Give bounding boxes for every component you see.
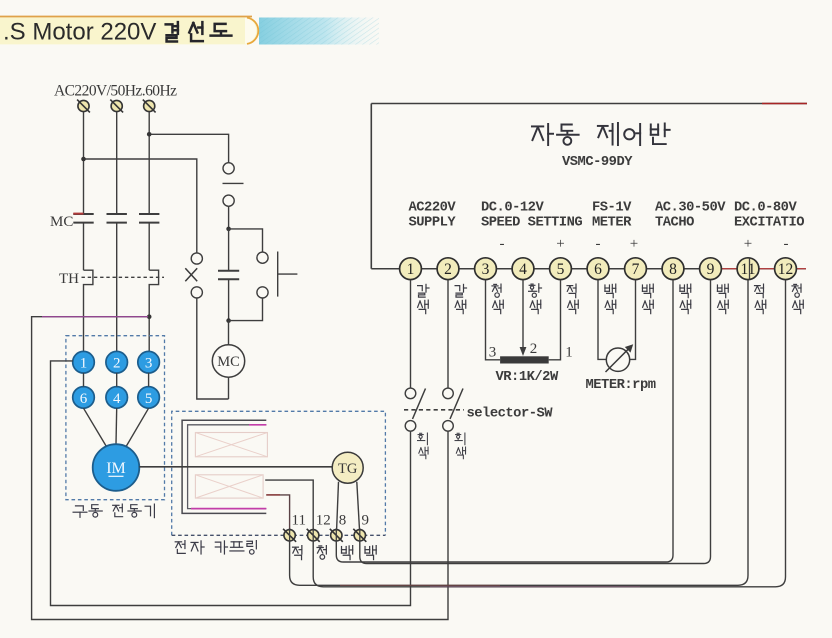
- terminal 12 (output): [308, 530, 319, 541]
- panel top edge red tint: [762, 103, 807, 105]
- wire coupling to terminal 11: [266, 495, 289, 530]
- panel terminal 2: [437, 258, 459, 280]
- label 전자 카프링: [175, 541, 185, 554]
- panel terminal 5: [550, 258, 572, 280]
- maroon tint coupling wire: [266, 494, 280, 496]
- label 백색 under terminal 6: [605, 284, 616, 298]
- node phase3 bottom tap: [147, 314, 152, 319]
- svg-text:METER:rpm: METER:rpm: [586, 378, 656, 393]
- node phase3 tap: [147, 132, 152, 137]
- panel terminal 3: [475, 258, 497, 280]
- wire panel T9 to output 9: [360, 280, 711, 564]
- svg-text:3: 3: [482, 261, 490, 278]
- contactor MC aux contact: [218, 270, 239, 272]
- terminal L2: [111, 100, 122, 111]
- wire coupling to terminal 12: [265, 480, 313, 529]
- svg-text:-: -: [784, 236, 789, 252]
- svg-text:AC220V/50Hz.60Hz: AC220V/50Hz.60Hz: [54, 83, 177, 100]
- wire through terminal 8: [335, 528, 337, 542]
- panel terminal 4: [512, 258, 534, 280]
- label 적색 under terminal 5: [567, 284, 576, 298]
- label 백 (white) t8: [342, 546, 353, 560]
- motor terminal 6: [73, 387, 95, 409]
- wire motor 5 to IM: [126, 408, 149, 447]
- wire panel T11 to output 11: [290, 280, 748, 586]
- panel left edge: [370, 104, 372, 269]
- wire phase3 top: [148, 112, 150, 135]
- svg-text:-: -: [596, 236, 601, 252]
- contactor MC main contact 3: [139, 213, 159, 215]
- wire panel T8 to output 8: [336, 280, 673, 562]
- wire phase3 to motor: [148, 317, 150, 352]
- wire selector pole2 to phase3: [32, 317, 448, 620]
- svg-text:4: 4: [113, 391, 121, 407]
- title band yellow background: [0, 17, 259, 44]
- svg-text:12: 12: [778, 261, 794, 278]
- wire stop to junction: [228, 206, 230, 229]
- thermal overload TH phase3: [149, 270, 158, 317]
- coupling core magenta top: [249, 424, 266, 426]
- motor terminal 1: [73, 351, 95, 373]
- label 갈색 under terminal 1: [418, 284, 429, 297]
- coupling core outer: [182, 420, 266, 513]
- wire phase1 top: [83, 112, 85, 214]
- selector switch pole 1: [405, 388, 416, 399]
- svg-text:1: 1: [407, 261, 415, 278]
- svg-text:8: 8: [339, 513, 347, 529]
- wire through terminal 12: [312, 528, 314, 542]
- svg-text:3: 3: [145, 356, 153, 372]
- wire motor 6 to IM: [84, 408, 108, 447]
- wire panel T12 to output 12: [313, 280, 785, 587]
- svg-text:9: 9: [362, 513, 370, 529]
- svg-text:.S Motor 220V: .S Motor 220V: [3, 19, 156, 46]
- motor terminal 2: [106, 351, 128, 373]
- svg-text:SUPPLY: SUPPLY: [409, 216, 457, 231]
- wire TG to terminal 9: [357, 482, 360, 530]
- motor IM: [93, 444, 140, 491]
- motor terminal 5: [138, 387, 160, 409]
- wire aux to lower junction: [228, 279, 230, 320]
- label 황색 under terminal 4: [529, 284, 542, 298]
- svg-text:8: 8: [669, 261, 677, 278]
- svg-text:5: 5: [145, 391, 153, 407]
- magenta tint on phase3 link: [42, 316, 148, 318]
- wire between MC contact and TH: [83, 223, 85, 271]
- wire T7 to meter: [630, 280, 636, 360]
- svg-text:AC220V: AC220V: [409, 201, 457, 216]
- motor terminal 4: [106, 387, 128, 409]
- wire through terminal 11: [749, 258, 751, 279]
- svg-text:AC.30-50V: AC.30-50V: [655, 201, 726, 216]
- motor terminal 3: [138, 351, 160, 373]
- svg-text:SPEED SETTING: SPEED SETTING: [481, 216, 582, 231]
- panel terminal 9: [700, 258, 722, 280]
- wire between MC contact and TH: [116, 223, 118, 352]
- wire through terminal 11: [289, 528, 291, 542]
- wire control tap phase3: [149, 134, 228, 162]
- label 갈색 under terminal 2: [455, 284, 466, 297]
- svg-text:1: 1: [565, 345, 573, 361]
- svg-text:11: 11: [741, 261, 756, 278]
- svg-text:2: 2: [530, 341, 538, 357]
- label 백색 under terminal 7: [642, 284, 653, 298]
- svg-text:1: 1: [80, 356, 88, 372]
- start pushbutton NO contact: [257, 252, 268, 263]
- title band cyan swoosh: [259, 18, 379, 45]
- label 청 (blue): [317, 546, 326, 560]
- wire T6 to meter: [598, 280, 606, 360]
- terminal 9 (output): [354, 530, 365, 541]
- svg-text:DC.0-80V: DC.0-80V: [734, 201, 797, 216]
- svg-text:MC: MC: [217, 354, 240, 370]
- wire T5 to VR: [549, 280, 561, 360]
- panel terminal 11: [737, 258, 759, 280]
- TH trip contact: [191, 253, 202, 264]
- svg-text:IM: IM: [106, 460, 126, 477]
- label 회색 pole1: [418, 433, 428, 445]
- label 백 (white) t9: [365, 546, 376, 560]
- node phase1 tap: [81, 157, 86, 162]
- wire motor terminal link: [116, 373, 118, 387]
- label 청색 under terminal 3: [492, 284, 501, 297]
- label 구동 전동기: [73, 506, 87, 517]
- wire TG to terminal 8: [337, 482, 339, 530]
- wire start bottom to lower junction: [229, 298, 263, 321]
- svg-text:TH: TH: [59, 271, 79, 287]
- svg-text:MC: MC: [50, 214, 73, 230]
- wire T1 to selector: [410, 280, 412, 389]
- svg-text:EXCITATIO: EXCITATIO: [734, 216, 804, 231]
- svg-text:+: +: [556, 236, 564, 252]
- node control junction lower: [226, 318, 231, 323]
- selector mechanical link (dashed): [404, 409, 464, 411]
- label 청색 under terminal 12: [792, 284, 801, 297]
- label 백색 under terminal 8: [680, 284, 691, 298]
- wire junction to aux contact: [228, 229, 230, 271]
- panel terminal 12: [775, 258, 797, 280]
- svg-text:12: 12: [316, 513, 331, 529]
- tacho generator TG: [332, 452, 363, 483]
- coupling winding lower: [195, 475, 263, 498]
- terminal L3: [144, 100, 155, 111]
- svg-text:4: 4: [519, 261, 527, 278]
- svg-text:TG: TG: [338, 461, 358, 477]
- panel terminal rail: [371, 268, 806, 270]
- panel terminal 7: [625, 258, 647, 280]
- label 백색 under terminal 9: [717, 284, 728, 298]
- wire T2 to selector: [447, 280, 449, 389]
- wire motor terminal link: [148, 373, 150, 387]
- wire MC coil bottom: [228, 377, 230, 399]
- wire T3 to VR: [486, 280, 501, 360]
- svg-text:9: 9: [707, 261, 715, 278]
- terminal 11 (output): [284, 530, 295, 541]
- svg-text:+: +: [630, 236, 638, 252]
- wire motor terminal link: [83, 373, 85, 387]
- panel rail red tint: [722, 268, 806, 270]
- label 적 (red): [293, 546, 302, 560]
- panel terminal 1: [400, 258, 422, 280]
- terminal L1: [78, 100, 89, 111]
- svg-text:6: 6: [80, 391, 88, 407]
- svg-text:2: 2: [444, 261, 452, 278]
- svg-text:VR:1K/2W: VR:1K/2W: [496, 369, 559, 385]
- svg-text:DC.0-12V: DC.0-12V: [481, 201, 544, 216]
- svg-text:VSMC-99DY: VSMC-99DY: [562, 155, 633, 170]
- node control junction upper: [226, 227, 231, 232]
- label 회색 pole2: [455, 433, 465, 445]
- wire control tap phase1: [84, 159, 197, 253]
- stop pushbutton NC contact: [223, 163, 234, 174]
- wire selector pole1 to motor terminal 1: [51, 361, 411, 606]
- contactor MC main contact 2: [107, 213, 127, 215]
- wire through terminal 9: [359, 528, 361, 542]
- svg-text:3: 3: [489, 345, 497, 361]
- wire phase2 top: [116, 112, 118, 214]
- wire T4 wiper: [522, 280, 524, 348]
- red scan tint on contact 1: [73, 213, 83, 215]
- wire branch to start button: [229, 229, 263, 252]
- svg-text:METER: METER: [592, 216, 632, 231]
- terminal 8 (output): [331, 530, 342, 541]
- svg-text:7: 7: [632, 261, 640, 278]
- selector switch pole 2: [443, 388, 454, 399]
- svg-text:-: -: [500, 236, 505, 252]
- label 적색 under terminal 11: [755, 284, 764, 298]
- svg-text:TACHO: TACHO: [655, 216, 694, 231]
- coupling core inner: [188, 425, 267, 509]
- svg-text:+: +: [744, 236, 752, 252]
- magenta tint pair2 line: [430, 586, 640, 588]
- svg-text:selector-SW: selector-SW: [467, 406, 554, 422]
- coil MC: [212, 345, 244, 377]
- title text 결선도: [166, 22, 178, 41]
- svg-text:11: 11: [292, 513, 306, 529]
- wire trip contact to MC coil bottom: [197, 298, 229, 399]
- wire motor 4 to IM: [115, 408, 118, 444]
- svg-text:5: 5: [557, 261, 565, 278]
- coupling box (dashed): [172, 411, 386, 535]
- label 자동 제어반: [532, 124, 553, 145]
- thermal overload TH phase1: [84, 270, 93, 351]
- wire between MC contact and TH: [148, 223, 150, 271]
- shaft IM to TG: [139, 466, 332, 468]
- coupling winding upper: [195, 433, 267, 457]
- red tint line 11: [340, 584, 500, 586]
- potentiometer VR 1K/2W: [500, 356, 549, 363]
- svg-text:6: 6: [594, 261, 602, 278]
- panel top edge: [371, 103, 807, 105]
- meter rpm: [606, 348, 629, 371]
- panel terminal 6: [587, 258, 609, 280]
- coupling core magenta bottom: [191, 508, 266, 510]
- panel terminal 8: [662, 258, 684, 280]
- svg-text:FS-1V: FS-1V: [592, 201, 632, 216]
- motor terminal box (dashed): [66, 336, 165, 500]
- TH dashed trip link: [82, 276, 165, 278]
- contactor MC main contact 1: [73, 213, 93, 215]
- wire lower junction to MC coil: [228, 321, 230, 345]
- svg-text:2: 2: [113, 356, 121, 372]
